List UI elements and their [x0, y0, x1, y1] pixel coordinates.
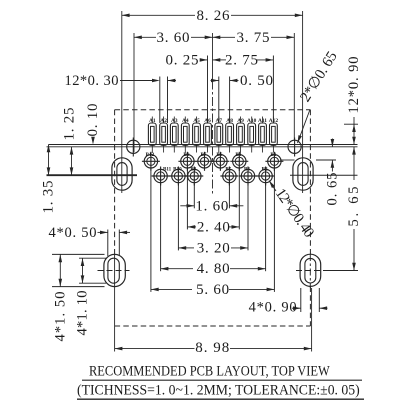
hole B10	[172, 169, 185, 182]
pad A1	[148, 123, 156, 145]
svg-text:3. 60: 3. 60	[157, 30, 190, 46]
dimension 1.25	[71, 147, 73, 175]
svg-text:0. 25: 0. 25	[166, 52, 199, 68]
upper slot centerline left	[47, 174, 138, 176]
lower slot centerline left	[98, 270, 130, 272]
svg-text:4*0. 50: 4*0. 50	[49, 225, 97, 241]
hole B5	[223, 169, 236, 182]
subtitle underline	[77, 398, 364, 400]
slot lower-right	[300, 254, 321, 286]
svg-text:B12: B12	[146, 152, 155, 158]
lower slot centerline right	[296, 270, 326, 272]
svg-text:A11: A11	[258, 118, 267, 124]
slot top tangent extension left	[280, 159, 295, 161]
svg-text:A2: A2	[160, 118, 167, 124]
hole B11	[154, 169, 167, 182]
slot upper-right	[293, 158, 313, 190]
svg-text:5. 60: 5. 60	[196, 282, 229, 298]
slot upper-left	[112, 158, 132, 190]
hole B7	[198, 155, 211, 168]
extension line left slot center	[121, 11, 123, 193]
svg-text:4. 80: 4. 80	[197, 261, 230, 277]
pad-bottom extension line	[49, 144, 358, 146]
svg-text:A9: A9	[237, 118, 244, 124]
dimension 4*0.50	[107, 230, 109, 257]
svg-text:B1: B1	[270, 152, 276, 158]
svg-text:B7: B7	[201, 152, 207, 158]
svg-text:2. 40: 2. 40	[197, 219, 230, 235]
svg-text:B10: B10	[173, 166, 182, 172]
svg-text:0. 10: 0. 10	[85, 104, 101, 137]
hole B3	[241, 169, 254, 182]
dimension 12*0.30	[159, 77, 161, 124]
pad A11	[259, 123, 267, 145]
hole B6	[214, 155, 227, 168]
dimension 3. 20	[177, 183, 179, 250]
svg-text:B2: B2	[262, 166, 268, 172]
hole B2	[259, 169, 272, 182]
dimension 0.25	[207, 56, 209, 124]
dimension 0.65	[331, 139, 333, 147]
svg-text:3. 20: 3. 20	[197, 240, 230, 256]
svg-text:1. 60: 1. 60	[195, 198, 228, 214]
svg-text:1. 35: 1. 35	[41, 181, 57, 214]
pad A5	[193, 123, 201, 145]
dimension 2. 40	[186, 169, 188, 230]
svg-text:12*0. 30: 12*0. 30	[65, 73, 119, 89]
dimension 4*1.10	[79, 257, 106, 259]
pad A3	[170, 123, 178, 145]
pad A4	[181, 123, 189, 145]
svg-text:A3: A3	[171, 118, 178, 124]
svg-text:B4: B4	[235, 152, 241, 158]
svg-text:B6: B6	[216, 152, 222, 158]
dimension 5.65	[353, 147, 355, 180]
label 12*dia0.40 with leader	[269, 181, 276, 192]
dimension 4*1.50	[52, 253, 105, 255]
hole B12	[144, 155, 157, 168]
pad A8	[226, 123, 234, 145]
pad A9	[237, 123, 245, 145]
hole B4	[233, 155, 246, 168]
svg-text:RECOMMENDED PCB LAYOUT, TOP VI: RECOMMENDED PCB LAYOUT, TOP VIEW	[89, 363, 330, 379]
pad A12	[270, 123, 278, 145]
svg-text:1. 25: 1. 25	[62, 108, 78, 141]
label 2*dia0.65 with leader	[298, 110, 311, 144]
mounting hole left (2*0.65)	[127, 140, 140, 153]
pad top tick right	[344, 123, 358, 125]
dimension 1.35	[48, 145, 50, 176]
hole B8	[188, 169, 201, 182]
dimension 3.60	[133, 33, 135, 152]
svg-text:A1: A1	[149, 118, 156, 124]
hole B9	[181, 155, 194, 168]
svg-text:A10: A10	[247, 118, 257, 124]
dimension 3.75	[293, 33, 295, 140]
dimension 0.10	[92, 138, 94, 142]
dimension 8.26	[122, 14, 195, 16]
svg-text:4*1. 50: 4*1. 50	[52, 292, 68, 342]
pad A6	[204, 123, 212, 145]
svg-text:12*0. 90: 12*0. 90	[346, 57, 362, 114]
svg-text:B11: B11	[163, 166, 172, 172]
slot top tangent extension right	[316, 159, 336, 161]
slot lower-left	[104, 254, 125, 286]
svg-text:B3: B3	[244, 166, 250, 172]
title underline	[82, 379, 362, 381]
dimension 5. 60	[150, 169, 152, 292]
svg-text:A4: A4	[182, 118, 189, 124]
dimension 1. 60	[193, 183, 195, 208]
svg-text:4*1. 10: 4*1. 10	[75, 291, 91, 336]
svg-text:4*0. 90: 4*0. 90	[249, 300, 297, 316]
dimension 12*0.90	[353, 117, 355, 145]
svg-text:(TICHNESS=1. 0~1. 2MM; TOLERAN: (TICHNESS=1. 0~1. 2MM; TOLERANCE:±0. 05)	[77, 382, 360, 399]
pad A7	[215, 123, 223, 145]
upper slot centerline right	[290, 174, 358, 176]
pad A10	[248, 123, 256, 145]
connector body outline (dashed rectangle)	[115, 109, 311, 111]
dimension 4. 80	[160, 183, 162, 271]
svg-text:0. 50: 0. 50	[240, 73, 273, 89]
dimension 0.50	[218, 77, 220, 124]
svg-text:B9: B9	[183, 152, 189, 158]
dimension 2.75	[272, 56, 274, 124]
hole B1	[268, 155, 281, 168]
mount-hole centerline extension	[47, 146, 358, 148]
dimension 8.98	[114, 254, 116, 352]
mounting hole right (2*0.65)	[288, 140, 301, 153]
dimension 4*0.90	[300, 288, 302, 312]
vertical centerline of footprint	[212, 33, 214, 81]
svg-text:B8: B8	[190, 166, 196, 172]
svg-text:3. 75: 3. 75	[237, 30, 270, 46]
svg-text:2. 75: 2. 75	[225, 52, 258, 68]
extension line right slot center	[302, 11, 304, 193]
svg-text:8. 98: 8. 98	[195, 340, 229, 356]
svg-text:A5: A5	[193, 118, 200, 124]
svg-text:8. 26: 8. 26	[197, 8, 231, 24]
svg-text:B5: B5	[225, 166, 231, 172]
pad A2	[160, 123, 168, 145]
